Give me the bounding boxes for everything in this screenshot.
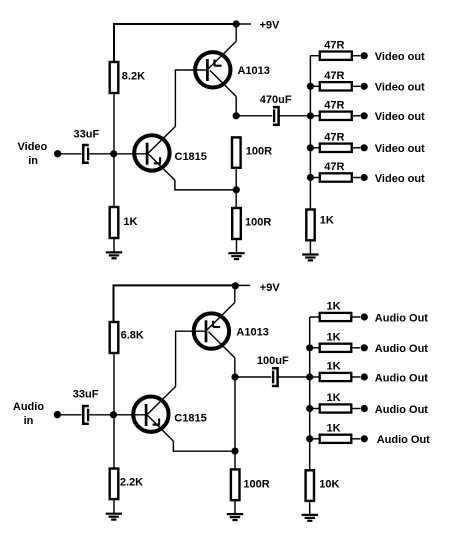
svg-text:33uF: 33uF [74,129,100,141]
wire A1013 emitter to rail [235,24,237,41]
wire C1815 collector to A1013 base [175,70,207,126]
resistor 6.8K [110,322,119,353]
node bus row4 [307,144,314,151]
resistor 100R (emitter) [232,208,241,239]
transistor Q A1013 (audio) [194,303,235,358]
wire 33uF to base (audio) [89,414,146,416]
node Video out 5 [361,174,368,181]
wire bus to 47R row4 [310,147,319,149]
resistor 47R row4 [320,144,352,152]
capacitor 100uF [272,368,278,386]
node Audio Out 2 [361,344,368,351]
resistor 1K row2 [320,344,352,352]
svg-text:47R: 47R [324,39,344,51]
svg-text:A1013: A1013 [236,326,268,338]
svg-text:1K: 1K [327,332,341,344]
ground (video emitter) [228,253,244,259]
node video input base node [110,150,117,157]
resistor 47R row3 [320,112,352,120]
node Video out 1 [361,52,368,59]
resistor 1K row1 [320,313,352,321]
node Audio Out 5 [361,435,368,442]
svg-text:47R: 47R [324,99,344,111]
wire bus to 1K row3 [310,376,320,378]
svg-text:+9V: +9V [260,20,281,32]
wire input to 33uF [58,153,82,155]
svg-text:A1013: A1013 [238,65,270,77]
resistor 47R row2 [320,82,352,90]
ground (audio emitter) [227,514,243,520]
wire C1815 emitter to junction (audio) [173,441,235,451]
wire 47R row4 to out [352,147,361,149]
wire A1013 collector down [235,97,237,117]
node Video out 3 [361,112,368,119]
wire bus to 1K row4 [310,408,320,410]
svg-text:Video out: Video out [375,111,425,123]
svg-text:6.8K: 6.8K [121,330,144,342]
wire 47R row3 to out [352,115,361,117]
svg-text:1K: 1K [327,392,341,404]
wire C1815 collector to A1013 base (audio) [176,331,207,386]
wire bus to 47R row3 [310,115,319,117]
wire 6.8K to input node (audio) [113,353,115,415]
node Audio in terminal [54,411,61,418]
node audio input base node [110,411,117,418]
svg-text:47R: 47R [324,161,344,173]
ground (video bus) [302,255,318,261]
svg-text:2.2K: 2.2K [120,477,143,489]
wire 100R to ground (audio) [234,500,236,514]
svg-text:470uF: 470uF [260,94,292,106]
resistor 100R (audio emitter) [231,469,240,500]
wire bus to 1K row5 [310,438,320,440]
wire bus to 1K row1 (audio) [310,316,320,318]
wire bus to 47R row2 [310,85,319,87]
wire 1K row2 to out [351,347,360,349]
wire C1815 emitter to junction [175,180,236,190]
svg-text:+9V: +9V [260,282,281,294]
node emitter junction (audio) [231,448,238,455]
svg-text:Audio Out: Audio Out [375,372,428,384]
svg-text:C1815: C1815 [174,412,206,424]
resistor 1K (video bus load) [306,210,314,241]
svg-text:C1815: C1815 [175,151,207,163]
svg-text:1K: 1K [327,423,341,435]
svg-text:8.2K: 8.2K [122,70,145,82]
node bus row3 [307,112,314,119]
svg-text:Audio: Audio [13,401,44,413]
wire 1K to ground [113,238,115,253]
wire 10K to ground [309,501,311,515]
wire 100R to emitter junction [235,168,237,208]
node Audio Out 3 [361,373,368,380]
svg-text:Video out: Video out [375,143,425,155]
wire 100uF to bus (audio) [278,376,310,378]
resistor 1K row4 [320,404,352,412]
node Audio Out 4 [361,405,368,412]
ground (audio input divider) [106,514,122,520]
svg-text:100R: 100R [246,146,272,158]
node video output cap node [233,112,240,119]
resistor 1K row3 [320,373,352,381]
svg-text:1K: 1K [123,216,137,228]
svg-text:Audio Out: Audio Out [375,312,428,324]
svg-text:in: in [24,415,34,427]
resistor 100R (collector load) [232,137,241,167]
svg-text:100R: 100R [243,478,269,490]
wire 33uF to base [89,153,147,155]
wire 47R row5 to out [352,177,361,179]
wire 2.2K to ground [113,499,115,514]
svg-text:47R: 47R [324,70,344,82]
resistor 47R row1 [320,52,352,60]
node Video out 4 [361,144,368,151]
wire +9V stub (audio) [235,284,250,286]
wire cap node to emitter junction (audio) [234,377,236,451]
node bus row2 [307,83,314,90]
resistor 47R row5 [320,173,352,181]
svg-text:1K: 1K [327,361,341,373]
capacitor 33uF (video input) [83,145,89,163]
resistor 1K row5 [320,435,352,443]
wire 1K to ground [309,240,311,254]
wire bus to 1K row2 [310,347,320,349]
wire bus to 47R row5 [310,177,319,179]
svg-text:Video out: Video out [375,82,425,94]
svg-text:33uF: 33uF [73,389,99,401]
transistor Q C1815 (video) [134,126,175,180]
resistor 1K [110,207,119,238]
svg-text:Audio Out: Audio Out [375,404,428,416]
node Audio Out 1 [361,313,368,320]
capacitor 470uF [273,107,279,125]
wire junction to 100R (audio) [234,451,236,469]
svg-text:Audio Out: Audio Out [377,434,430,446]
wire node to 1K [113,154,115,207]
wire node to 100uF [235,376,271,378]
wire A1013 collector down (audio) [234,358,236,377]
wire video output bus [309,56,311,210]
wire 47R row1 to out [352,55,361,57]
wire +9V bottom rail [114,285,236,322]
resistor 2.2K [110,469,119,500]
node bus row5 (audio) [306,435,313,442]
svg-text:100uF: 100uF [257,355,289,367]
wire 470uF to bus [279,115,310,117]
wire 47R row2 to out [352,85,361,87]
wire +9V top rail [114,24,236,62]
svg-text:in: in [28,155,38,167]
node bus row2 (audio) [306,344,313,351]
resistor 10K (audio bus load) [306,470,314,501]
wire bus to 47R row1 [310,55,319,57]
wire 1K row1 to out [351,316,360,318]
svg-text:Video: Video [18,141,48,153]
node Video out 2 [361,83,368,90]
wire A1013 emitter to rail (audio) [234,285,236,302]
node +9V rail junction [233,20,240,27]
wire 1K row4 to out [351,408,360,410]
svg-text:Audio Out: Audio Out [375,343,428,355]
ground (audio bus) [302,515,318,521]
node bus row4 (audio) [306,405,313,412]
node emitter junction (video) [233,186,240,193]
wire 1K row5 to out [351,438,360,440]
wire 8.2K to input node [113,93,115,154]
svg-text:1K: 1K [327,301,341,313]
wire +9V stub [236,23,251,25]
node Video in terminal [54,150,61,157]
node bus row3 (audio) [306,373,313,380]
transistor Q A1013 (video) [195,41,236,96]
svg-text:Video out: Video out [375,173,425,185]
wire 1K row3 to out [351,376,360,378]
svg-text:100R: 100R [245,216,271,228]
wire node to 2.2K [113,415,115,469]
svg-text:1K: 1K [320,215,334,227]
wire audio output bus [309,317,311,470]
svg-text:10K: 10K [319,479,339,491]
node bus row5 [307,174,314,181]
transistor Q C1815 (audio) [133,387,175,442]
wire input to 33uF (audio) [57,414,81,416]
svg-text:Video out: Video out [375,51,425,63]
resistor 8.2K [110,62,119,93]
svg-text:47R: 47R [324,131,344,143]
node audio output cap node [231,373,238,380]
wire node to 470uF [236,115,272,117]
ground (video input divider) [106,252,122,258]
node +9V rail junction (audio) [232,282,239,289]
capacitor 33uF (audio input) [83,406,89,424]
wire 100R to ground [236,239,238,253]
